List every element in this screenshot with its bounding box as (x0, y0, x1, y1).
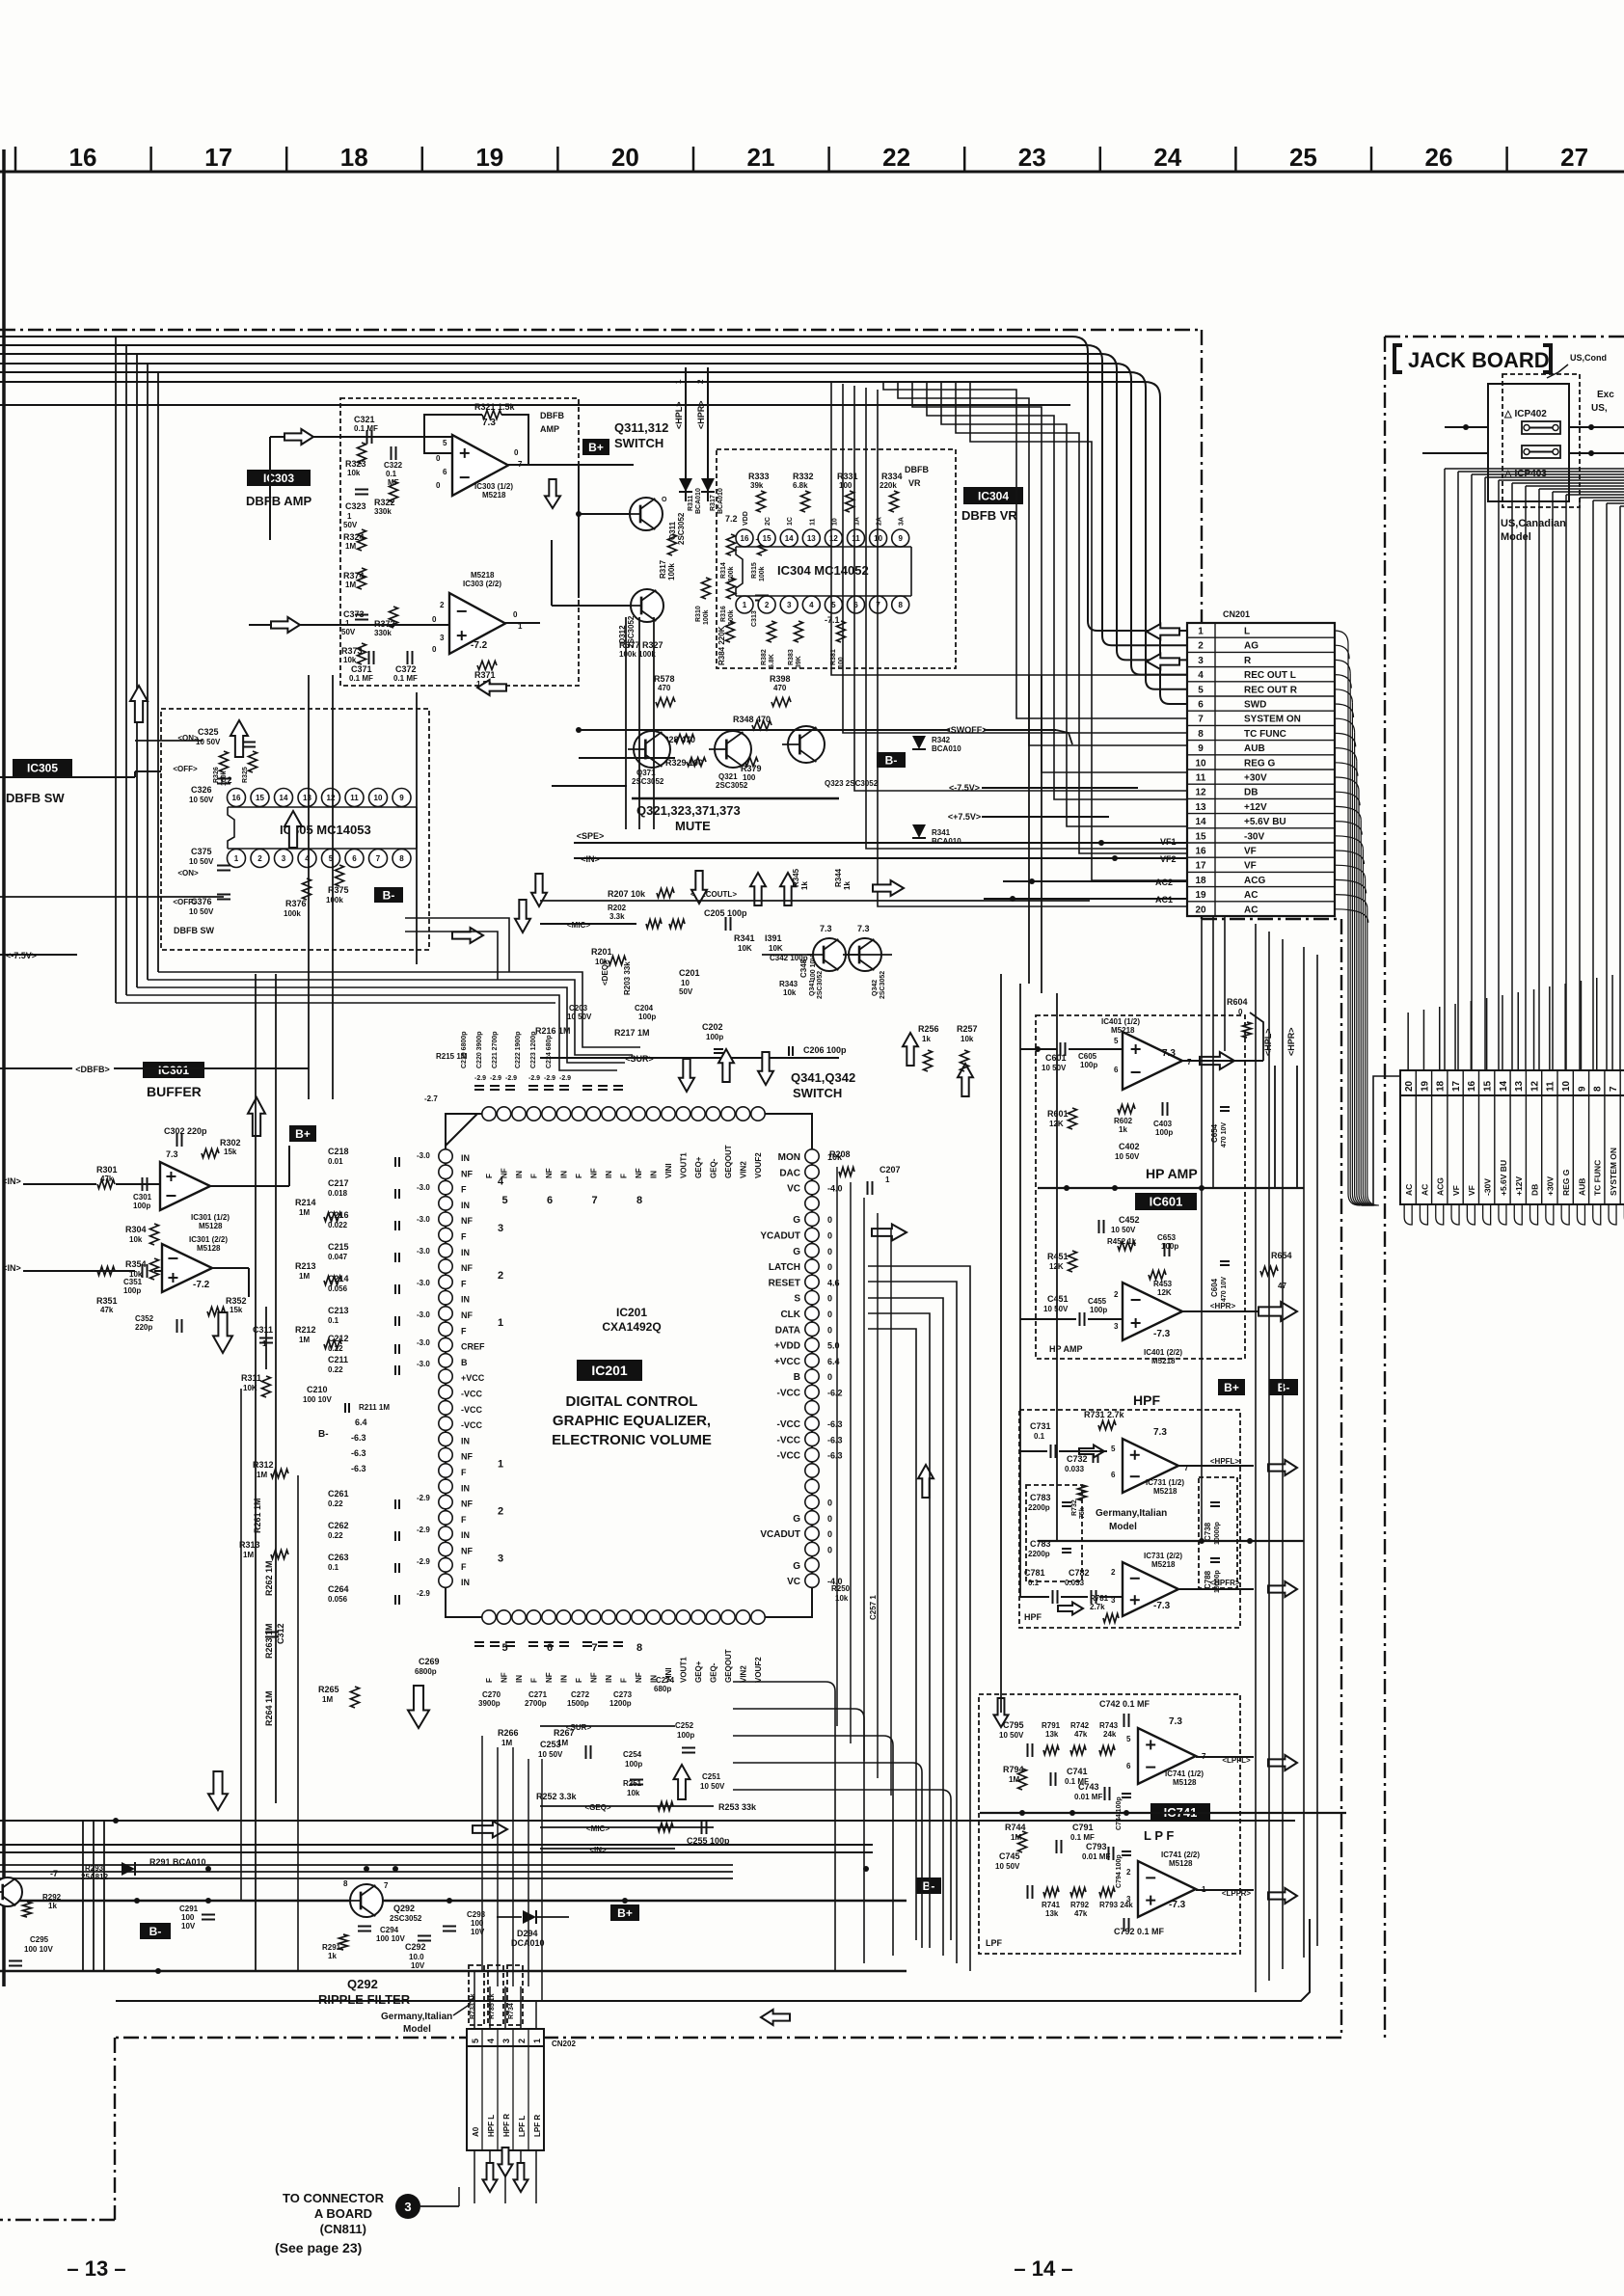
svg-text:16: 16 (1195, 847, 1206, 857)
label DBFB AMP corner (540, 411, 564, 434)
resistor R381 rot (830, 621, 846, 668)
svg-text:IC301 (1/2): IC301 (1/2) (191, 1213, 230, 1222)
svg-text:47k: 47k (1074, 1730, 1088, 1739)
svg-text:0.22: 0.22 (328, 1365, 343, 1374)
svg-text:HPF L: HPF L (487, 2115, 496, 2137)
svg-text:6: 6 (1111, 1471, 1116, 1479)
block arrow down r207 (691, 871, 707, 904)
svg-text:C794 100p: C794 100p (1116, 1854, 1123, 1888)
svg-text:US,Cond: US,Cond (1570, 353, 1607, 363)
svg-text:GRAPHIC EQUALIZER,: GRAPHIC EQUALIZER, (553, 1413, 711, 1429)
block arrow right mid a (452, 928, 483, 943)
resistor R265 (318, 1685, 360, 1708)
svg-text:R314: R314 (720, 562, 727, 579)
diode D312 (701, 478, 724, 514)
CN202 body (467, 2029, 544, 2150)
svg-text:100: 100 (838, 657, 845, 668)
svg-text:3: 3 (404, 2200, 411, 2214)
svg-text:2: 2 (517, 2039, 527, 2043)
block arrow down big (208, 1771, 228, 1810)
svg-text:F: F (461, 1279, 467, 1288)
svg-text:10 50V: 10 50V (1111, 1226, 1136, 1234)
resistor R291b (322, 1934, 348, 1960)
capacitor C325 (196, 727, 256, 747)
svg-text:8: 8 (898, 601, 903, 609)
svg-text:-7.2: -7.2 (471, 640, 488, 651)
svg-text:C375: C375 (191, 847, 212, 856)
wire geq bottom (536, 1792, 757, 1812)
svg-text:2.7k: 2.7k (1090, 1603, 1105, 1611)
svg-text:C373: C373 (343, 609, 365, 619)
capacitor C293 (443, 1910, 486, 1936)
svg-text:2C: 2C (765, 517, 771, 526)
svg-text:1: 1 (885, 1175, 890, 1184)
block arrow right hp2 (1259, 1302, 1297, 1321)
block arrow B+ down (545, 479, 560, 508)
svg-text:+5.6V BU: +5.6V BU (1499, 1160, 1508, 1196)
svg-text:C261: C261 (328, 1489, 349, 1499)
resistor R203 rot (623, 961, 632, 995)
svg-text:IC741 (1/2): IC741 (1/2) (1165, 1769, 1204, 1778)
ICP402 label (1503, 409, 1547, 419)
IC201 top group numbers (502, 1195, 643, 1206)
IC304 name text (777, 563, 869, 578)
svg-text:C254: C254 (623, 1750, 642, 1759)
wire q341 area (762, 954, 892, 956)
svg-text:IN: IN (515, 1171, 524, 1178)
capacitor C744 rot (1116, 1794, 1131, 1830)
svg-text:HPF R: HPF R (502, 2114, 511, 2137)
svg-text:C372: C372 (395, 664, 417, 674)
svg-text:0: 0 (827, 1215, 832, 1225)
tag ON 1 (177, 734, 199, 743)
tag LPFL (1222, 1756, 1251, 1765)
IC305 label box (13, 759, 72, 776)
op-amp IC301 2/2 labels (189, 1235, 228, 1290)
resistor R732 rot (1071, 1485, 1087, 1519)
svg-text:-6.3: -6.3 (827, 1435, 843, 1445)
svg-text:-3.0: -3.0 (417, 1338, 430, 1347)
svg-text:0: 0 (827, 1499, 832, 1508)
svg-text:R217 1M: R217 1M (614, 1028, 650, 1038)
jack board vertical wires (1445, 469, 1620, 1070)
block arrow up ic301 (248, 1097, 265, 1136)
IC304 top pins 16-9 (736, 511, 909, 547)
svg-text:19: 19 (1195, 890, 1206, 901)
svg-text:R744: R744 (1005, 1823, 1026, 1832)
svg-text:-VCC: -VCC (777, 1389, 800, 1399)
svg-text:<ON>: <ON> (177, 869, 199, 878)
resistor R266 (498, 1728, 519, 1747)
HPF dashed box (1019, 1410, 1240, 1628)
svg-text:R602: R602 (1114, 1117, 1133, 1125)
capacitor C654 rot (1210, 1107, 1230, 1148)
capacitor C292 (405, 1936, 431, 1971)
svg-text:14: 14 (785, 534, 794, 543)
vertical wire x309 (297, 1475, 299, 1971)
svg-text:DIGITAL CONTROL: DIGITAL CONTROL (566, 1393, 698, 1410)
Germany Italian model label2 (381, 1996, 474, 2035)
svg-text:-6.3: -6.3 (827, 1451, 843, 1461)
resistor R398 (770, 674, 791, 707)
svg-text:+VCC: +VCC (461, 1373, 485, 1383)
tag OFF 2 (173, 898, 198, 906)
capacitor C256 (918, 1024, 978, 1071)
capacitor C291 (179, 1866, 215, 1931)
svg-text:C654: C654 (1210, 1123, 1219, 1143)
capacitor C203 (567, 1004, 592, 1021)
svg-text:I391: I391 (765, 933, 782, 943)
block arrow up rt2 (958, 1064, 973, 1096)
capacitor C604 rot (1210, 1261, 1230, 1302)
op-amp IC741 2/2 (1138, 1861, 1196, 1917)
svg-text:-VCC: -VCC (461, 1405, 482, 1415)
svg-text:2: 2 (696, 379, 705, 384)
block arrow left bottom right (761, 2010, 790, 2025)
CN202 name (552, 2039, 576, 2048)
svg-text:1: 1 (674, 379, 683, 384)
svg-text:C795: C795 (1003, 1720, 1024, 1730)
svg-text:R313: R313 (239, 1540, 260, 1550)
B- label box mute (877, 752, 906, 768)
R734 dashed box (507, 1965, 523, 2025)
wire recoutl (540, 900, 1090, 902)
resistor R792 (1070, 1888, 1090, 1919)
svg-text:C262: C262 (328, 1521, 349, 1530)
svg-text:3900p: 3900p (478, 1699, 501, 1708)
svg-text:R791: R791 (1042, 1721, 1061, 1730)
svg-text:0: 0 (827, 1372, 832, 1382)
resistor R328 (658, 735, 695, 745)
B+ label box hpf (1218, 1379, 1245, 1395)
wire hp in1 (1020, 1046, 1123, 1052)
resistor R332 (793, 472, 814, 512)
svg-text:7.2: 7.2 (725, 514, 738, 524)
transistor Q342 (843, 924, 886, 999)
svg-text:<GEQ>: <GEQ> (584, 1803, 610, 1812)
svg-text:C272: C272 (571, 1690, 590, 1699)
svg-text:1: 1 (532, 2039, 542, 2043)
resistor R602 (1114, 1105, 1135, 1135)
resistor R372 (374, 607, 398, 637)
svg-text:0.1 MF: 0.1 MF (349, 674, 373, 683)
transistor Q293 left edge (0, 1864, 109, 1906)
wires into CN201 left (883, 382, 1187, 880)
svg-text:24: 24 (1153, 143, 1181, 172)
svg-text:NF: NF (461, 1547, 473, 1556)
svg-text:IN: IN (461, 1530, 470, 1540)
R785 dashed box (488, 1965, 503, 2025)
svg-text:9: 9 (898, 534, 903, 543)
wire spe (574, 831, 1187, 843)
svg-text:-6.3: -6.3 (827, 1419, 843, 1429)
HP AMP title (1146, 1166, 1198, 1181)
svg-text:1: 1 (262, 1339, 267, 1348)
svg-text:2SC3052: 2SC3052 (677, 512, 686, 545)
tag SUR mid (540, 1054, 839, 1064)
page ruler (0, 147, 1624, 172)
svg-text:10 50V: 10 50V (189, 907, 214, 916)
svg-text:C271: C271 (528, 1690, 548, 1699)
resistor R451 (1047, 1251, 1077, 1272)
svg-text:C273: C273 (613, 1690, 633, 1699)
svg-text:DBFB SW: DBFB SW (174, 926, 214, 935)
mute wires (552, 730, 950, 786)
svg-text:R262 1M: R262 1M (264, 1560, 274, 1596)
capacitor C455 (1088, 1297, 1107, 1314)
svg-text:C220 3900p: C220 3900p (476, 1031, 483, 1068)
IC304 -7.1 label (825, 615, 840, 625)
svg-text:R302: R302 (220, 1138, 241, 1148)
svg-text:C264: C264 (328, 1584, 349, 1594)
svg-text:19: 19 (1420, 1080, 1430, 1092)
svg-text:HP AMP: HP AMP (1146, 1166, 1198, 1181)
CN202 columns (471, 2029, 542, 2150)
capacitor C321 (354, 415, 378, 444)
svg-text:-6.3: -6.3 (351, 1464, 366, 1473)
svg-text:13: 13 (1514, 1080, 1525, 1092)
svg-text:100p: 100p (1155, 1128, 1173, 1137)
svg-text:R383: R383 (788, 649, 795, 665)
block arrow down mid c (531, 874, 547, 906)
IC201 bottom pin names (485, 1649, 763, 1683)
svg-text:<OFF>: <OFF> (173, 765, 198, 773)
CN201 name (1223, 609, 1250, 619)
label R216 R217 (535, 1026, 650, 1038)
vertical wire x250 (240, 1389, 242, 1901)
svg-text:0.1: 0.1 (1034, 1432, 1045, 1441)
svg-text:F: F (620, 1678, 629, 1683)
svg-text:13k: 13k (1045, 1730, 1059, 1739)
svg-text:6: 6 (1126, 1762, 1131, 1770)
svg-text:C741: C741 (1067, 1767, 1088, 1776)
svg-text:IN: IN (605, 1675, 613, 1683)
capacitor C302 (164, 1126, 207, 1147)
svg-text:11: 11 (852, 534, 860, 543)
svg-text:C452: C452 (1119, 1215, 1140, 1225)
svg-text:DBFB AMP: DBFB AMP (246, 494, 311, 508)
svg-text:18: 18 (340, 143, 368, 172)
svg-text:R578: R578 (654, 674, 675, 684)
wire mic bottom (540, 1821, 714, 1834)
svg-text:8: 8 (343, 1879, 348, 1888)
svg-text:6: 6 (547, 1642, 553, 1654)
svg-text:C455: C455 (1088, 1297, 1107, 1306)
svg-text:+VCC: +VCC (774, 1357, 800, 1367)
svg-text:5: 5 (1111, 1445, 1116, 1453)
svg-text:0: 0 (827, 1325, 832, 1335)
svg-text:B-: B- (923, 1879, 935, 1893)
svg-text:F: F (461, 1468, 467, 1477)
svg-text:C403: C403 (1153, 1120, 1173, 1128)
svg-text:0.1: 0.1 (386, 470, 397, 478)
B- label box ic305 (374, 887, 403, 903)
svg-text:C783: C783 (1030, 1493, 1051, 1502)
op-amp IC303 2/2 labels (432, 571, 523, 654)
resistor R313 (239, 1540, 288, 1559)
wires joints (576, 727, 1118, 861)
svg-text:10 50V: 10 50V (567, 1013, 592, 1021)
svg-text:10k: 10k (627, 1789, 640, 1797)
resistor R322 (374, 481, 398, 516)
svg-text:0.1 MF: 0.1 MF (354, 424, 378, 433)
MUTE title (632, 798, 839, 833)
svg-text:39K: 39K (796, 656, 802, 668)
svg-text:-2.9: -2.9 (505, 1075, 517, 1082)
CN201 VF2 label (1160, 854, 1177, 864)
svg-text:<HPR>: <HPR> (1210, 1302, 1236, 1310)
svg-text:1C: 1C (787, 517, 794, 526)
svg-text:M5218: M5218 (1111, 1026, 1135, 1035)
vertical connector feed wire (1362, 1076, 1400, 1205)
vertical wire x320 (308, 675, 310, 1099)
svg-text:B+: B+ (588, 441, 604, 454)
IC201 bottom cap cluster (474, 1642, 623, 1646)
capacitor C204 (635, 1004, 656, 1021)
svg-text:100p: 100p (706, 1033, 723, 1041)
svg-text:0: 0 (436, 481, 441, 490)
svg-text:BCA010: BCA010 (932, 837, 961, 846)
svg-text:R317: R317 (710, 495, 717, 511)
svg-text:MON: MON (778, 1152, 800, 1163)
resistor R373 (341, 643, 366, 664)
wire AC1 row (984, 896, 1187, 902)
svg-text:2: 2 (1111, 1568, 1116, 1577)
wire hpf mid (1038, 1538, 1304, 1544)
svg-text:VF: VF (1451, 1185, 1461, 1196)
IC201 right pin values (827, 1152, 843, 1586)
svg-text:C791: C791 (1072, 1823, 1094, 1832)
svg-text:2SC3052: 2SC3052 (632, 777, 664, 786)
svg-text:Q311,312: Q311,312 (614, 420, 668, 435)
svg-text:R732: R732 (1071, 1499, 1078, 1516)
svg-text:10k: 10k (347, 469, 361, 477)
ICP wires left (1422, 424, 1488, 453)
svg-text:NF: NF (461, 1169, 473, 1178)
svg-text:SYSTEM ON: SYSTEM ON (1244, 715, 1301, 725)
main board dash-dot border top (0, 329, 1202, 331)
svg-text:CXA1492Q: CXA1492Q (602, 1320, 661, 1334)
svg-text:1: 1 (347, 512, 352, 521)
svg-text:2: 2 (498, 1270, 503, 1282)
wire to circle3 (420, 2187, 459, 2206)
svg-text:24k: 24k (1103, 1730, 1117, 1739)
label DBFB VR inner (905, 465, 929, 488)
resistor R333 (748, 472, 770, 512)
svg-text:1M: 1M (1009, 1775, 1019, 1784)
svg-text:100k: 100k (759, 566, 766, 581)
capacitor C373 (341, 609, 368, 636)
svg-text:RIPPLE FILTER: RIPPLE FILTER (318, 1992, 411, 2007)
svg-text:7: 7 (592, 1642, 598, 1654)
svg-text:Q292: Q292 (393, 1904, 415, 1913)
svg-text:IC304: IC304 (978, 489, 1009, 502)
svg-text:Q341,Q342: Q341,Q342 (791, 1070, 855, 1085)
svg-text:SWITCH: SWITCH (793, 1086, 842, 1100)
B- label box left lpf (916, 1877, 941, 1894)
wire HPL vertical (674, 367, 686, 501)
svg-text:+5.6V BU: +5.6V BU (1244, 817, 1286, 827)
svg-text:NF: NF (635, 1672, 643, 1683)
IC303 label box (247, 470, 311, 486)
svg-text:R293: R293 (85, 1864, 104, 1873)
svg-text:-2.9: -2.9 (417, 1589, 430, 1598)
svg-text:NF: NF (501, 1672, 509, 1683)
svg-text:Q321,323,371,373: Q321,323,371,373 (636, 803, 741, 818)
svg-text:+VDD: +VDD (774, 1341, 800, 1352)
vertical trunk channel right (1256, 924, 1317, 1992)
svg-text:IN: IN (560, 1675, 569, 1683)
IC201 bottom pin row (482, 1610, 765, 1624)
svg-text:0: 0 (514, 448, 519, 457)
capacitor C743 (1074, 1782, 1110, 1801)
diode D311 (679, 478, 702, 514)
svg-text:-VCC: -VCC (777, 1435, 800, 1445)
svg-text:21: 21 (747, 143, 775, 172)
resistor R202 (608, 904, 627, 921)
resistor R329 (665, 758, 706, 769)
svg-text:R208: R208 (829, 1149, 851, 1159)
svg-text:BCA010: BCA010 (695, 488, 702, 514)
IC201 right pin labels (760, 1152, 800, 1587)
svg-text:R743: R743 (1099, 1721, 1119, 1730)
svg-text:8: 8 (636, 1642, 642, 1654)
svg-text:<SPE>: <SPE> (577, 831, 605, 841)
svg-text:Q342: Q342 (872, 980, 879, 996)
svg-text:C601: C601 (1045, 1053, 1067, 1063)
main board dash-dot border bottom (115, 2037, 1341, 2039)
IC201 name text (602, 1306, 661, 1334)
svg-text:C223 1200p: C223 1200p (530, 1031, 537, 1068)
svg-text:10 50V: 10 50V (538, 1750, 563, 1759)
svg-text:F: F (530, 1678, 539, 1683)
resistor R341b (734, 933, 755, 953)
svg-text:10 50V: 10 50V (1042, 1064, 1067, 1072)
capacitor C601 (1042, 1042, 1067, 1072)
resistor R604 (1227, 997, 1252, 1038)
svg-text:R266: R266 (498, 1728, 519, 1738)
IC303 DBFB AMP title (246, 494, 311, 508)
svg-text:-2.7: -2.7 (424, 1094, 438, 1103)
capacitor C781 (1024, 1568, 1058, 1604)
capacitor C323 (343, 490, 368, 530)
svg-text:7: 7 (876, 601, 880, 609)
svg-text:C270: C270 (482, 1690, 501, 1699)
block arrow down cn202 c (514, 2163, 528, 2192)
svg-text:B-: B- (318, 1429, 329, 1440)
HPF small label (1024, 1612, 1042, 1622)
svg-text:C219 6800p: C219 6800p (461, 1031, 468, 1068)
CN201 table (1187, 623, 1335, 916)
svg-text:F: F (461, 1326, 467, 1336)
svg-text:F: F (530, 1174, 539, 1178)
CN201 AC2 label (1155, 878, 1173, 887)
svg-text:LPF R: LPF R (533, 2115, 542, 2137)
svg-text:0.056: 0.056 (328, 1595, 348, 1604)
CN201 right hook wires (1335, 631, 1379, 1205)
label DBFB SW inner (174, 926, 214, 935)
ICP solid box (1488, 384, 1569, 501)
op-amp IC741 2/2 labels (1126, 1850, 1206, 1910)
svg-text:C207: C207 (880, 1165, 901, 1175)
svg-text:10: 10 (681, 979, 690, 987)
svg-text:-2.9: -2.9 (417, 1526, 430, 1534)
svg-text:C326: C326 (191, 785, 212, 795)
wire IC303 in1 (270, 437, 452, 540)
wire hp in2 (1020, 1318, 1123, 1320)
svg-text:R351: R351 (96, 1296, 118, 1306)
svg-text:13: 13 (1195, 802, 1206, 813)
